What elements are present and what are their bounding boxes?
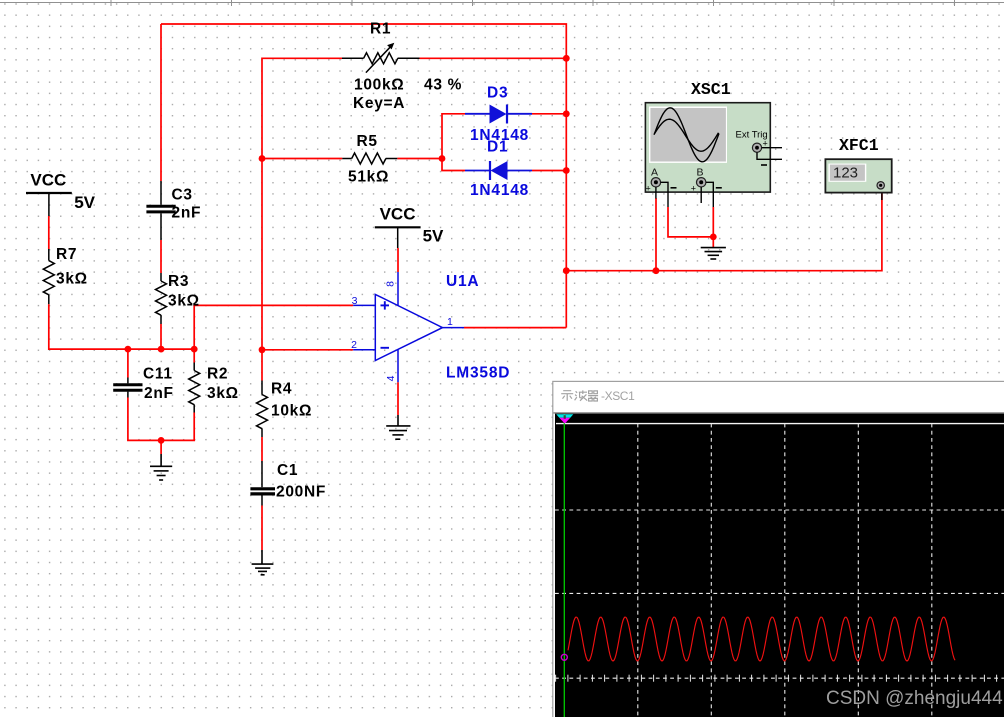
junction -input node	[259, 346, 266, 353]
svg-text:100kΩ: 100kΩ	[354, 77, 404, 94]
wire XFC1 terminal lead	[881, 189, 883, 200]
svg-text:C3: C3	[172, 187, 193, 204]
power VCC (op-amp)	[375, 227, 421, 248]
instrument XSC1	[645, 80, 782, 207]
wire R5	[262, 158, 442, 160]
svg-text:3kΩ: 3kΩ	[168, 293, 200, 310]
XSC1 screen sine curve 2	[655, 119, 719, 151]
svg-text:2: 2	[351, 339, 357, 351]
wire XSC1 B- to ground	[712, 207, 714, 237]
svg-text:1N4148: 1N4148	[470, 182, 529, 199]
resistor R1 (potentiometer)	[342, 45, 420, 72]
svg-text:+: +	[763, 138, 768, 148]
svg-text:R4: R4	[271, 381, 292, 398]
svg-text:2nF: 2nF	[172, 205, 202, 222]
resistor R7	[43, 249, 54, 304]
capacitor C11	[113, 378, 142, 398]
junction R2 top / +input	[191, 346, 198, 353]
junction node2/R5 wire	[259, 155, 266, 162]
svg-text:C11: C11	[143, 366, 173, 383]
svg-text:3kΩ: 3kΩ	[56, 271, 88, 288]
junction rail/D1 wire	[563, 167, 570, 174]
ground under C11/R2	[150, 454, 172, 480]
svg-text:3kΩ: 3kΩ	[207, 385, 239, 402]
svg-text:VCC: VCC	[30, 171, 66, 190]
svg-text:XSC1: XSC1	[691, 80, 731, 99]
svg-text:5V: 5V	[74, 193, 95, 212]
scope display frame line	[553, 412, 1004, 414]
XFC1 body	[825, 159, 891, 192]
trigger marker	[556, 414, 573, 418]
junction diode branch/R5	[439, 155, 446, 162]
junction C11/R2 bottom ground	[158, 437, 165, 444]
wire R2 top	[193, 349, 195, 362]
svg-text:200NF: 200NF	[276, 484, 326, 501]
ground under op-amp pin4	[386, 415, 410, 439]
wire op-amp output	[464, 327, 566, 329]
wire R4 to C1	[261, 437, 263, 461]
svg-text:-XSC1: -XSC1	[601, 389, 635, 403]
terminal XFC1	[877, 182, 884, 189]
wire R7 to bottom node	[49, 304, 194, 349]
svg-text:C1: C1	[277, 462, 298, 479]
wire R3 bottom	[160, 324, 162, 349]
wire C11 top	[127, 349, 129, 377]
junction rail/D3 wire	[563, 110, 570, 117]
wire XSC1 A+	[655, 198, 657, 271]
svg-text:CSDN @zhengju444: CSDN @zhengju444	[826, 688, 1003, 709]
svg-text:D3: D3	[487, 85, 508, 102]
svg-text:5V: 5V	[423, 227, 444, 246]
svg-text:123: 123	[833, 165, 858, 182]
wire C1 to ground	[261, 506, 263, 551]
wire XSC1 A- to ground	[668, 207, 713, 237]
junction R3 bottom	[158, 346, 165, 353]
scope display background	[555, 414, 1004, 717]
scope window title 示波器 glyphs	[561, 390, 598, 401]
sheet ruler top	[0, 0, 1004, 6]
XFC1 display	[828, 164, 866, 182]
svg-text:R2: R2	[207, 366, 228, 383]
XSC1 screen sine curve 1	[654, 108, 719, 162]
XSC1 body	[645, 103, 770, 192]
diode D1	[465, 161, 532, 180]
junction rail/output wire	[563, 267, 570, 274]
terminal B	[697, 178, 706, 187]
wire output to instruments	[566, 189, 882, 271]
junction XSC1 ground node	[710, 234, 717, 241]
wire op-amp pin4 to ground	[397, 382, 399, 415]
svg-text:43 %: 43 %	[424, 77, 462, 94]
graticule	[555, 424, 1004, 717]
resistor R4	[257, 381, 268, 438]
instrument XFC1	[825, 136, 891, 193]
resistor R2	[189, 363, 200, 413]
wire to op-amp - input	[262, 349, 353, 351]
svg-text:3: 3	[352, 295, 358, 307]
terminal A	[651, 178, 660, 187]
resistor R5	[342, 153, 397, 164]
junction C11 top	[125, 346, 132, 353]
green timeline	[563, 414, 565, 717]
svg-text:10kΩ: 10kΩ	[271, 403, 312, 420]
svg-text:4: 4	[385, 375, 397, 381]
resistor R3	[156, 273, 167, 324]
wire C3-R3 link	[160, 240, 162, 273]
svg-text:D1: D1	[487, 139, 508, 156]
svg-text:B: B	[697, 167, 704, 179]
ground under C1	[252, 550, 274, 575]
XSC1 screen	[649, 107, 727, 163]
power VCC (left)	[26, 193, 72, 216]
svg-text:51kΩ: 51kΩ	[348, 169, 389, 186]
svg-text:VCC: VCC	[380, 204, 416, 223]
axis ticks	[556, 675, 997, 682]
svg-text:1: 1	[447, 316, 453, 328]
op-amp U1A	[353, 272, 464, 382]
waveform	[568, 617, 955, 661]
svg-text:LM358D: LM358D	[446, 365, 510, 382]
capacitor C1	[250, 461, 275, 506]
junction output wire/XSC1 A	[653, 267, 660, 274]
ground under XSC1	[701, 247, 726, 259]
capacitor C3	[146, 181, 175, 240]
wire C11 bottom / R2 bottom	[128, 398, 194, 441]
scope window frame	[553, 381, 1004, 717]
wire C3 top rail	[160, 24, 162, 181]
wire ground stub below C11/R2	[160, 440, 162, 454]
oscilloscope window 示波器-XSC1	[553, 381, 1004, 717]
svg-text:+: +	[691, 184, 696, 194]
svg-text:XFC1: XFC1	[839, 136, 879, 155]
svg-text:U1A: U1A	[446, 273, 479, 290]
wire op-amp VCC	[397, 248, 399, 272]
svg-text:A: A	[651, 167, 658, 179]
wire top loop	[161, 24, 566, 328]
junction rail/R1 wire	[563, 55, 570, 62]
wire R1 branch	[262, 58, 566, 158]
svg-text:R5: R5	[357, 133, 378, 150]
svg-text:2nF: 2nF	[144, 385, 174, 402]
wire inverting node rail x=262	[261, 159, 263, 381]
svg-text:+: +	[646, 184, 651, 194]
terminal Ext Trig	[752, 143, 761, 152]
svg-text:R1: R1	[370, 21, 391, 38]
svg-text:Key=A: Key=A	[353, 95, 405, 112]
svg-text:8: 8	[384, 281, 396, 287]
marker circle	[561, 654, 567, 660]
wire to op-amp + input	[194, 305, 353, 349]
svg-text:R7: R7	[56, 246, 77, 263]
wire VCC1 to R7	[48, 216, 50, 249]
diode D3	[465, 105, 532, 124]
svg-text:R3: R3	[168, 273, 189, 290]
wire diode branch	[442, 114, 566, 171]
